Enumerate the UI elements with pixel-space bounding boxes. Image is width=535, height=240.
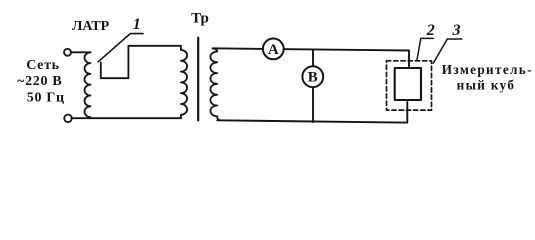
svg-text:Тр: Тр	[191, 10, 209, 26]
svg-text:Сеть: Сеть	[26, 58, 60, 73]
svg-text:50 Гц: 50 Гц	[27, 90, 65, 105]
svg-text:1: 1	[133, 16, 141, 33]
svg-text:~220 В: ~220 В	[17, 74, 62, 89]
svg-text:А: А	[268, 42, 279, 58]
svg-text:Измеритель-: Измеритель-	[442, 62, 533, 77]
svg-text:3: 3	[452, 22, 461, 39]
svg-text:ЛАТР: ЛАТР	[72, 19, 110, 34]
svg-text:ный куб: ный куб	[457, 78, 516, 93]
svg-text:В: В	[308, 70, 318, 86]
svg-text:2: 2	[426, 22, 435, 39]
